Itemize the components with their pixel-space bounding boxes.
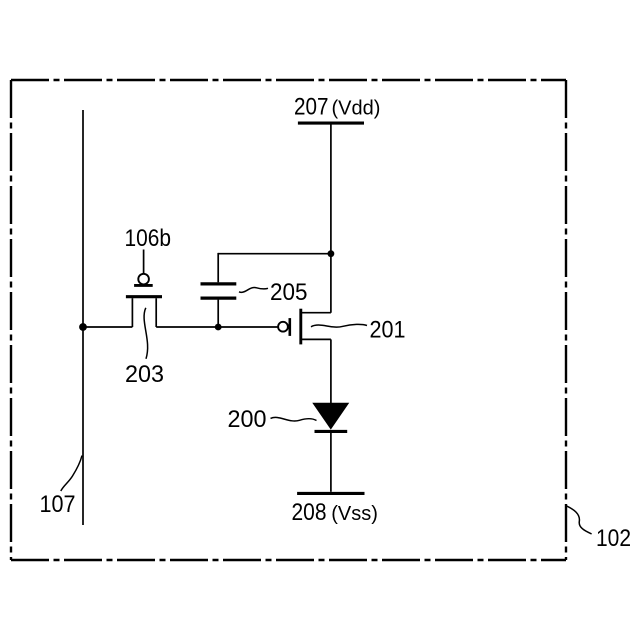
svg-text:203: 203 [125, 361, 164, 388]
svg-text:200: 200 [228, 406, 267, 433]
svg-text:106b: 106b [125, 225, 172, 252]
leader line for 201 [311, 324, 367, 327]
junction node at capacitor/row wire [215, 324, 222, 331]
pixel boundary 102 (dash-dot rectangle) [11, 80, 566, 560]
wire: capacitor bottom stub [217, 300, 219, 327]
transistor Q203 contact bar [134, 284, 153, 287]
transistor Q203 terminal circle [138, 274, 149, 285]
junction node on rail [328, 250, 335, 257]
transistor Q201 drain wire (top) [302, 312, 331, 314]
transistor Q203 gate bar [126, 295, 162, 298]
transistor Q203 left leg [131, 298, 133, 327]
leader line for 102 [566, 506, 591, 534]
wire: capacitor top stub [217, 253, 219, 282]
svg-text:205: 205 [270, 279, 308, 306]
svg-text:102: 102 [596, 525, 631, 552]
svg-text:207: 207 [294, 93, 329, 120]
wire: row right segment [156, 326, 278, 328]
transistor Q201 channel bar [299, 309, 302, 345]
leader line for 200 [271, 417, 317, 421]
transistor Q201 gate bubble [278, 322, 288, 332]
transistor Q201 source wire (bottom) [302, 338, 331, 340]
capacitor C205 top plate [201, 282, 237, 285]
transistor Q203 right leg [155, 298, 157, 327]
power terminal bar 207 (Vdd) [298, 122, 364, 125]
svg-text:(Vss): (Vss) [331, 503, 378, 525]
leader line for 205 [239, 287, 268, 292]
wire: diode to Vss bar [330, 432, 332, 492]
diode D200 cathode bar [315, 430, 348, 433]
leader line for 203 [144, 308, 148, 359]
transistor Q201 gate bar [288, 318, 291, 336]
signal line 107 [82, 110, 84, 525]
svg-text:201: 201 [370, 316, 406, 343]
wire: capacitor top horizontal [218, 253, 331, 255]
junction node on signal line 107 [79, 323, 87, 331]
svg-text:208: 208 [292, 499, 327, 526]
wire: Vdd rail vertical [330, 125, 332, 313]
diode D200 (OLED) triangle [313, 403, 348, 429]
power terminal bar 208 (Vss) [297, 492, 364, 495]
svg-text:107: 107 [40, 491, 76, 518]
capacitor C205 bottom plate [201, 296, 237, 299]
svg-text:(Vdd): (Vdd) [332, 97, 381, 119]
wire: row left segment [83, 326, 132, 328]
wire: Q201 source to diode [330, 339, 332, 404]
transistor Q203 gate lead [143, 250, 145, 274]
leader line for 107 [61, 456, 82, 492]
